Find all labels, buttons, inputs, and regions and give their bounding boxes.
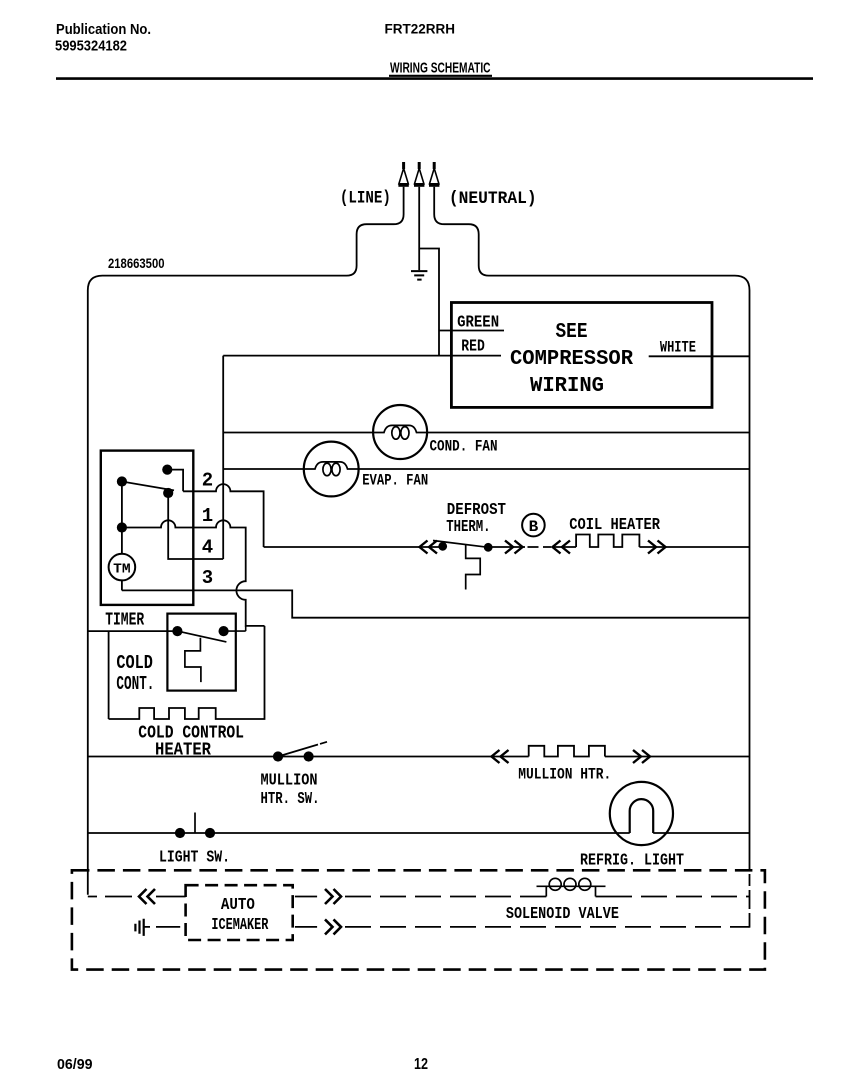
refrigerator light bulb circle xyxy=(610,782,673,845)
connector chevrons out of icemaker top xyxy=(325,889,341,904)
wire left border to cold control xyxy=(88,630,178,632)
line terminal arrow right xyxy=(433,162,436,169)
mullion heater switch dots xyxy=(273,751,283,761)
wire from top dot to contact 2 xyxy=(167,470,183,492)
svg-text:COMPRESSOR: COMPRESSOR xyxy=(510,348,633,371)
icemaker bottom-out dash xyxy=(295,926,317,928)
timer motor TM circle xyxy=(109,554,136,581)
timer contact dot middle xyxy=(163,488,173,498)
line terminal arrow middle xyxy=(418,162,421,169)
dashed enclosure box xyxy=(72,870,765,969)
icemaker top-out dash xyxy=(295,896,317,898)
wire green xyxy=(439,330,504,332)
svg-text:LIGHT SW.: LIGHT SW. xyxy=(159,849,230,868)
connector chevrons left of defrost therm xyxy=(420,541,438,554)
timer box xyxy=(101,451,194,605)
svg-text:SOLENOID VALVE: SOLENOID VALVE xyxy=(506,904,619,923)
wire contact 2 with hop, down to defrost line xyxy=(183,484,264,547)
svg-text:GREEN: GREEN xyxy=(457,313,499,332)
defrost line at coil heater xyxy=(552,546,750,548)
connector chevrons left of mullion heater xyxy=(492,750,509,763)
wire dot to TM motor xyxy=(121,528,123,554)
svg-text:218663500: 218663500 xyxy=(108,255,165,271)
connector chevrons right of coil heater xyxy=(648,541,666,554)
wire right contact to contact-1 wire xyxy=(224,630,246,632)
mullion heater switch blade xyxy=(278,742,327,757)
compressor box xyxy=(451,303,712,408)
svg-text:SEE: SEE xyxy=(556,321,588,344)
cold control switch blade xyxy=(177,631,226,642)
svg-text:AUTO: AUTO xyxy=(221,896,255,915)
wire white xyxy=(649,355,750,357)
wire TM to contact 3 xyxy=(121,580,123,590)
svg-text:B: B xyxy=(529,518,539,536)
refrigerator light line xyxy=(88,832,750,834)
line terminal arrow left xyxy=(402,162,405,169)
light switch actuator tick xyxy=(194,813,196,834)
svg-text:HEATER: HEATER xyxy=(155,741,211,761)
icemaker ground symbol xyxy=(135,919,143,936)
defrost thermostat contact dots xyxy=(438,542,447,551)
vertical feed wire x=223 xyxy=(222,356,224,559)
svg-text:Publication No.: Publication No. xyxy=(56,22,151,38)
connector chevrons left of coil heater xyxy=(553,541,571,554)
svg-text:ICEMAKER: ICEMAKER xyxy=(211,916,269,935)
wire from middle dot to contact 4 xyxy=(168,493,223,559)
svg-text:(NEUTRAL): (NEUTRAL) xyxy=(449,189,537,209)
svg-text:TIMER: TIMER xyxy=(105,611,144,631)
icemaker return line (bottom) left dashes xyxy=(144,926,181,928)
svg-text:RED: RED xyxy=(461,337,485,356)
defrost line middle segment xyxy=(488,546,525,548)
header: title underline xyxy=(389,75,492,77)
timer left vertical wire xyxy=(121,482,123,528)
svg-text:2: 2 xyxy=(202,470,213,492)
auto icemaker box (dashed) xyxy=(186,885,293,940)
refrigerator light filament xyxy=(630,799,654,833)
wire contact 1 with hops, descends to cold control xyxy=(122,520,265,626)
timer contact dot lower-left xyxy=(117,522,127,532)
cold control bimetal step xyxy=(185,638,201,682)
svg-text:REFRIG. LIGHT: REFRIG. LIGHT xyxy=(580,850,684,869)
svg-text:COLD: COLD xyxy=(116,652,152,674)
coil heater element xyxy=(576,535,639,548)
condenser fan motor circle xyxy=(373,405,427,459)
svg-text:4: 4 xyxy=(202,537,213,559)
icemaker feed line to box xyxy=(156,896,186,898)
wire: LINE lead into left top border xyxy=(88,187,404,895)
timer switch blade xyxy=(122,482,174,491)
svg-text:EVAP. FAN: EVAP. FAN xyxy=(362,472,428,490)
stub from contact-1 wire to cold control contact xyxy=(245,626,247,631)
solenoid valve coil xyxy=(537,886,606,896)
svg-text:1: 1 xyxy=(202,505,213,527)
wire contact 3 to right side xyxy=(122,590,750,617)
mullion heater element xyxy=(529,746,605,757)
wire: NEUTRAL lead into right top border xyxy=(434,187,749,871)
condenser fan motor winding xyxy=(373,425,427,432)
circled B label xyxy=(522,514,545,537)
svg-text:06/99: 06/99 xyxy=(57,1056,93,1073)
connector chevrons out of icemaker bottom xyxy=(325,919,341,934)
condenser fan wire xyxy=(223,432,749,434)
svg-text:WIRING SCHEMATIC: WIRING SCHEMATIC xyxy=(390,59,491,76)
dashed wire segment xyxy=(528,546,552,548)
ground symbol (top) xyxy=(411,271,427,280)
svg-text:FRT22RRH: FRT22RRH xyxy=(385,21,456,36)
solenoid feed dashed line xyxy=(345,896,546,898)
defrost thermostat blade xyxy=(433,541,488,548)
cold control box xyxy=(167,614,235,691)
wire: tap to compressor green/red xyxy=(419,249,439,356)
svg-text:MULLION: MULLION xyxy=(261,772,318,791)
connector chevrons right of mullion heater xyxy=(633,750,650,763)
connector chevrons into icemaker xyxy=(139,889,155,904)
timer contact dot left xyxy=(117,476,127,486)
svg-text:3: 3 xyxy=(202,567,213,589)
connector chevrons right of defrost therm xyxy=(505,541,523,554)
solenoid to border dashed line xyxy=(596,896,750,898)
timer contact dot top xyxy=(162,465,172,475)
cold control contact dots xyxy=(172,626,182,636)
svg-text:MULLION HTR.: MULLION HTR. xyxy=(518,765,611,783)
svg-text:HTR. SW.: HTR. SW. xyxy=(261,790,320,809)
defrost thermostat bimetal step xyxy=(466,544,481,589)
svg-text:WHITE: WHITE xyxy=(660,338,696,356)
svg-text:12: 12 xyxy=(414,1056,428,1073)
cold control heater element (castellated bottom) xyxy=(109,626,265,719)
light switch dots xyxy=(175,828,185,838)
svg-text:COND. FAN: COND. FAN xyxy=(430,438,498,456)
wire: middle ground lead xyxy=(418,187,420,270)
mullion heater line xyxy=(88,756,750,758)
evaporator fan motor winding xyxy=(304,462,358,469)
evaporator fan motor circle xyxy=(304,442,359,497)
defrost line left segment xyxy=(264,546,445,548)
svg-text:5995324182: 5995324182 xyxy=(55,38,127,55)
svg-text:CONT.: CONT. xyxy=(116,673,154,695)
icemaker feed line (top) left dashes xyxy=(88,896,132,898)
icemaker return dashed line to right border xyxy=(345,926,750,928)
right border dashed lower section xyxy=(749,874,751,928)
wire red xyxy=(223,355,501,357)
cold control heater loop left edge xyxy=(108,631,110,719)
svg-text:THERM.: THERM. xyxy=(446,518,490,537)
header: horizontal rule xyxy=(56,77,813,80)
svg-text:WIRING: WIRING xyxy=(530,375,604,398)
svg-text:TM: TM xyxy=(113,561,131,577)
evaporator fan wire xyxy=(223,468,749,470)
svg-text:COIL HEATER: COIL HEATER xyxy=(569,515,660,534)
svg-text:(LINE): (LINE) xyxy=(340,188,391,208)
